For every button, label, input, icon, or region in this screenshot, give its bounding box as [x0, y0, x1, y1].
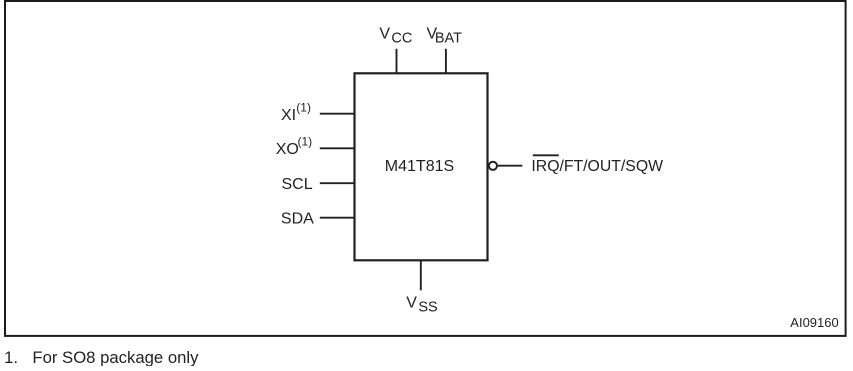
svg-text:SCL: SCL [282, 176, 313, 193]
svg-text:1.: 1. [4, 348, 18, 366]
svg-text:SDA: SDA [281, 211, 314, 228]
svg-text:(1): (1) [298, 135, 313, 149]
svg-text:XO: XO [276, 141, 299, 158]
svg-text:V: V [379, 25, 390, 42]
svg-text:BAT: BAT [435, 31, 462, 47]
svg-text:IRQ/FT/OUT/SQW: IRQ/FT/OUT/SQW [531, 158, 663, 175]
svg-text:V: V [406, 295, 417, 312]
svg-text:SS: SS [418, 300, 437, 316]
svg-text:CC: CC [391, 31, 412, 47]
svg-text:For SO8 package only: For SO8 package only [32, 348, 199, 366]
svg-text:(1): (1) [296, 100, 311, 114]
svg-text:M41T81S: M41T81S [385, 158, 454, 175]
svg-text:AI09160: AI09160 [790, 315, 838, 330]
svg-text:XI: XI [281, 107, 296, 124]
